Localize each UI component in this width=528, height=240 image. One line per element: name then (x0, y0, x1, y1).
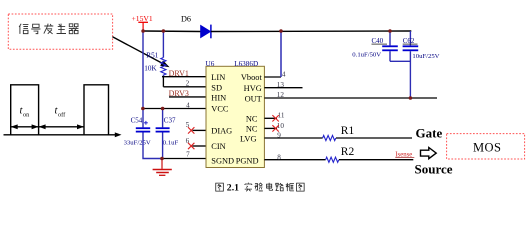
wire junction pin1 to pin2 (162, 77, 164, 87)
resistor R1 (323, 125, 355, 140)
svg-text:10K: 10K (144, 65, 157, 73)
svg-text:4: 4 (282, 70, 286, 78)
wire pin9 LVG to R1 (264, 132, 322, 140)
svg-text:Source: Source (415, 161, 453, 176)
svg-text:8: 8 (277, 153, 281, 161)
pin 5 DIAG stub (186, 121, 206, 130)
svg-text:2.1: 2.1 (227, 182, 239, 193)
op-amp driver IC U6 L6386D body (206, 60, 265, 168)
pin 10 NC stub (264, 122, 284, 130)
svg-text:R1: R1 (341, 125, 355, 137)
waveform pulse 1 (11, 85, 39, 135)
svg-text:C40: C40 (372, 37, 384, 45)
wire pin13 HVG stub (264, 81, 302, 89)
svg-text:13: 13 (277, 81, 285, 89)
t_off dimension arrow (39, 124, 84, 129)
ground (153, 159, 172, 176)
arrow from signal generator to DRV1 node (113, 37, 170, 68)
wire pin12 OUT (264, 91, 437, 99)
capacitor C37 (156, 109, 179, 159)
svg-text:Gate: Gate (416, 126, 443, 141)
no-connect X pin 11 (272, 115, 278, 121)
wire pin2 SD (163, 79, 206, 87)
wire C62 down to OUT line (409, 51, 411, 98)
resistor R51 (144, 31, 166, 77)
svg-text:C62: C62 (403, 37, 415, 45)
block arrow to MOS (421, 148, 437, 159)
MOS box (447, 134, 525, 159)
wire C54 bottom to ground rail (143, 133, 162, 159)
svg-text:10uF/25V: 10uF/25V (412, 53, 439, 60)
svg-text:HVG: HVG (244, 84, 262, 93)
svg-text:off: off (58, 112, 66, 119)
capacitor C54 (124, 117, 151, 147)
svg-text:SD: SD (211, 83, 222, 92)
svg-text:R51: R51 (146, 52, 158, 60)
wire C40 bottom link (390, 60, 410, 62)
svg-text:HIN: HIN (211, 93, 226, 102)
svg-text:NC: NC (246, 125, 258, 134)
svg-text:2: 2 (186, 79, 190, 87)
svg-text:12: 12 (277, 91, 285, 99)
wire pin7 SGND / ground rail (162, 151, 206, 159)
caption 图 2.1 实验电路框图 (216, 182, 304, 193)
svg-text:C37: C37 (164, 117, 176, 125)
wire top rail right (211, 30, 411, 33)
svg-text:33uF/25V: 33uF/25V (124, 140, 151, 147)
svg-text:LIN: LIN (211, 73, 225, 82)
svg-text:OUT: OUT (245, 94, 262, 103)
no-connect X pin 5 (188, 127, 194, 133)
waveform pulse 2 (84, 85, 109, 135)
waveform baseline axis (4, 132, 122, 137)
svg-text:0.1uF/50V: 0.1uF/50V (352, 51, 381, 58)
no-connect X pin 6 (188, 143, 194, 149)
svg-text:on: on (23, 112, 30, 119)
svg-text:VCC: VCC (211, 105, 229, 114)
pin 6 CIN stub (186, 137, 206, 146)
svg-text:D6: D6 (181, 14, 191, 23)
svg-text:7: 7 (186, 151, 190, 159)
wire pin1 LIN / net DRV1 (162, 69, 206, 78)
svg-text:MOS: MOS (473, 140, 501, 154)
svg-text:L6386D: L6386D (234, 60, 258, 68)
svg-text:DIAG: DIAG (211, 127, 232, 136)
diode D6 (181, 14, 211, 38)
pin 11 NC stub (264, 112, 285, 120)
svg-text:DRV1: DRV1 (169, 69, 189, 78)
wire R1 to Gate (336, 137, 412, 139)
wire pin14 Vboot to top rail (264, 31, 286, 78)
no-connect X pin 10 (272, 125, 278, 131)
wire pin4 VCC (143, 101, 206, 109)
svg-text:9: 9 (277, 132, 281, 140)
wire pin3 HIN / net DRV3 (169, 89, 206, 98)
wire VCC left vertical (142, 31, 144, 127)
resistor R2 (326, 146, 355, 162)
svg-text:0.1uF: 0.1uF (163, 140, 179, 147)
t_on dimension arrow (11, 124, 39, 129)
svg-text:+15V1: +15V1 (132, 14, 153, 23)
svg-text:NC: NC (246, 115, 258, 124)
svg-text:DRV3: DRV3 (169, 89, 189, 98)
signal generator box 信号发生器 (8, 14, 112, 49)
svg-text:R2: R2 (341, 146, 355, 158)
svg-text:PGND: PGND (236, 157, 259, 166)
wire top rail left (143, 30, 201, 33)
svg-text:4: 4 (186, 101, 190, 109)
svg-text:LVG: LVG (240, 134, 256, 143)
capacitor C40 (352, 31, 398, 61)
svg-text:U6: U6 (206, 60, 215, 68)
svg-text:C54: C54 (131, 117, 143, 125)
wire pin8 PGND to R2 (264, 153, 325, 161)
svg-text:CIN: CIN (211, 142, 225, 151)
svg-text:SGND: SGND (211, 157, 234, 166)
power +15V1 (132, 14, 153, 31)
wire R2 to Source / net Isense (339, 152, 414, 160)
capacitor C62 (403, 31, 440, 60)
svg-text:Vboot: Vboot (241, 73, 263, 82)
